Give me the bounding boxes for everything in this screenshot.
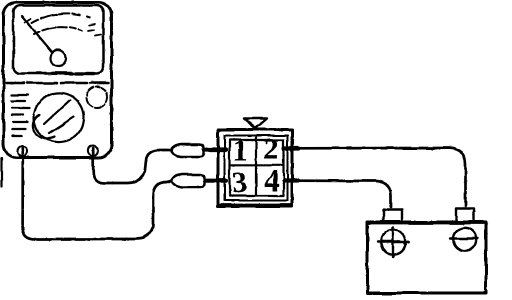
- multimeter panel divider: [6, 82, 109, 85]
- meter scale arc lower: [34, 27, 82, 34]
- connector key triangle: [244, 119, 267, 129]
- multimeter terminal right: [88, 146, 98, 156]
- battery BT1 case: [368, 222, 487, 293]
- wire stub probe P1 to pin 1: [204, 148, 226, 152]
- battery positive symbol: [378, 228, 409, 257]
- connector inner shell: [225, 136, 288, 201]
- scan artifact line left edge: [0, 158, 2, 187]
- multimeter selector knob: [33, 93, 84, 142]
- meter window bottom emphasis: [52, 72, 99, 76]
- wire: pin 4 to battery positive post: [296, 181, 391, 207]
- svg-text:4: 4: [264, 163, 280, 198]
- wire stub pin 2 right: [284, 146, 298, 150]
- multimeter meter window: [14, 6, 104, 74]
- multimeter button: [87, 87, 108, 108]
- multimeter terminal left: [18, 146, 28, 156]
- wire: right terminal to probe P1: [93, 148, 171, 183]
- multimeter M1 body: [4, 3, 112, 158]
- meter needle: [22, 16, 52, 52]
- meter needle tail tick: [25, 19, 31, 23]
- connector pin grid: [230, 136, 284, 196]
- multimeter range markings: [12, 95, 29, 136]
- meter scale tick marks: [88, 24, 101, 36]
- battery negative symbol: [451, 228, 479, 251]
- battery positive post: [384, 210, 403, 223]
- wire stub probe P2 to pin 3: [205, 179, 226, 183]
- wire: left terminal to probe P2: [23, 148, 171, 239]
- svg-text:1: 1: [232, 133, 248, 168]
- meter needle pivot: [50, 50, 66, 66]
- test probe P1: [171, 144, 204, 157]
- wire stub pin 4 right: [284, 178, 298, 182]
- connector outer shell: [218, 130, 292, 207]
- wire: pin 2 to battery negative post: [296, 148, 466, 206]
- battery negative post: [456, 209, 475, 223]
- svg-text:2: 2: [263, 131, 279, 166]
- svg-text:3: 3: [232, 164, 248, 199]
- meter scale arc upper: [32, 13, 94, 23]
- test probe P2: [172, 175, 205, 188]
